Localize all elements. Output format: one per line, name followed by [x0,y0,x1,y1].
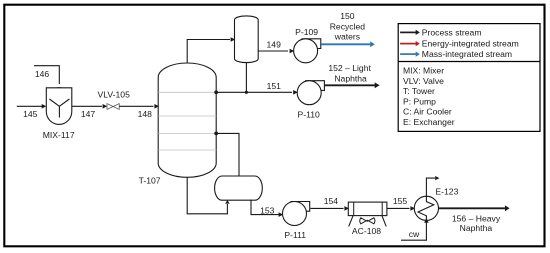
svg-text:Mass-integrated stream: Mass-integrated stream [422,49,512,59]
valve VLV-105 [107,104,119,110]
svg-text:E: Exchanger: E: Exchanger [403,117,455,127]
svg-text:155: 155 [393,196,408,206]
svg-text:P: Pump: P: Pump [403,96,436,106]
svg-text:AC-108: AC-108 [352,226,381,236]
air cooler AC-108 [348,202,387,216]
svg-text:152 – Light: 152 – Light [328,63,371,73]
svg-text:P-110: P-110 [298,110,321,120]
stream 149 arrowhead [290,49,295,54]
node tower lower sidedraw [214,132,218,136]
stream 146 arrowhead [57,87,62,92]
mixer MIX-117 [46,88,72,125]
stream 146 wire [34,66,59,84]
svg-text:151: 151 [267,81,282,91]
svg-text:153: 153 [260,205,275,215]
svg-text:Recycled: Recycled [330,21,366,31]
svg-text:146: 146 [35,69,50,79]
svg-text:VLV-105: VLV-105 [98,90,131,100]
wire tower side to bottom drum top [216,133,239,175]
wire drum bottom to stream 151 [245,63,247,93]
stream 145 wire [17,105,42,107]
exchanger E-123 [414,196,438,220]
legend process stream arrow [400,31,416,33]
stream 154 arrowhead [344,206,349,211]
stream 154 wire [310,207,343,209]
svg-text:VLV: Valve: VLV: Valve [403,76,444,86]
stream 156 arrowhead [505,205,510,211]
tower T-107 [158,63,216,177]
stream 151 arrowhead [293,90,298,95]
svg-text:MIX-117: MIX-117 [43,130,75,140]
svg-text:145: 145 [23,109,38,119]
svg-text:C: Air Cooler: C: Air Cooler [403,107,452,117]
arrowhead up into drum bottom [225,200,229,204]
stream 147 arrowhead [103,104,108,109]
legend energy-integrated arrow [400,43,416,45]
legend divider [398,61,540,63]
exchanger E-123 top outlet wire [426,178,435,196]
cw arrowhead up [424,218,429,223]
wire tower top to reflux drum [187,40,230,64]
svg-text:154: 154 [324,196,339,206]
reflux drum [235,16,259,63]
stream 155 arrowhead [410,206,415,211]
svg-text:149: 149 [267,40,282,50]
pump P-109 [302,39,321,49]
stream 153 arrowhead [279,212,284,217]
stream 150 arrowhead [370,41,375,47]
stream 148 arrowhead [154,104,159,109]
svg-text:T: Tower: T: Tower [403,86,435,96]
stream 152 wire [324,84,375,86]
air cooler legs [349,216,387,227]
cw wire [401,222,426,240]
svg-text:E-123: E-123 [435,187,458,197]
svg-text:Naphtha: Naphtha [334,74,367,84]
stream 155 wire [387,207,410,209]
node tower reflux return [214,90,218,94]
svg-text:148: 148 [138,109,153,119]
svg-text:Energy-integrated stream: Energy-integrated stream [422,39,519,49]
node junction [245,91,248,94]
pump P-110 [305,81,324,91]
svg-text:cw: cw [409,229,420,239]
svg-text:P-109: P-109 [295,27,318,37]
stream 145 arrowhead [42,104,47,109]
legend box [398,24,540,132]
svg-text:P-111: P-111 [284,230,306,240]
svg-text:147: 147 [81,109,96,119]
arrowhead into drum [231,37,236,42]
bottom drum [215,176,263,200]
stream 150 blue wire [321,43,370,45]
stream 147 wire [72,105,102,107]
stream 156 wire [439,207,506,209]
stream 153 wire [251,200,279,215]
air cooler fan [360,218,375,224]
tower trays [158,92,216,150]
stream 151 wire [216,91,292,93]
svg-text:waters: waters [334,32,360,42]
pump P-111 [290,202,309,212]
svg-text:MIX: Mixer: MIX: Mixer [403,66,444,76]
svg-text:T-107: T-107 [139,175,161,185]
stream 149 wire [258,50,288,52]
stream 148 wire [119,105,153,107]
svg-text:Process stream: Process stream [422,28,482,38]
svg-text:Naphtha: Naphtha [460,223,493,233]
legend mass-integrated arrow [400,53,416,55]
svg-text:150: 150 [340,11,355,21]
stream 152 arrowhead [375,82,380,88]
wire tower bottoms loop [187,177,227,214]
